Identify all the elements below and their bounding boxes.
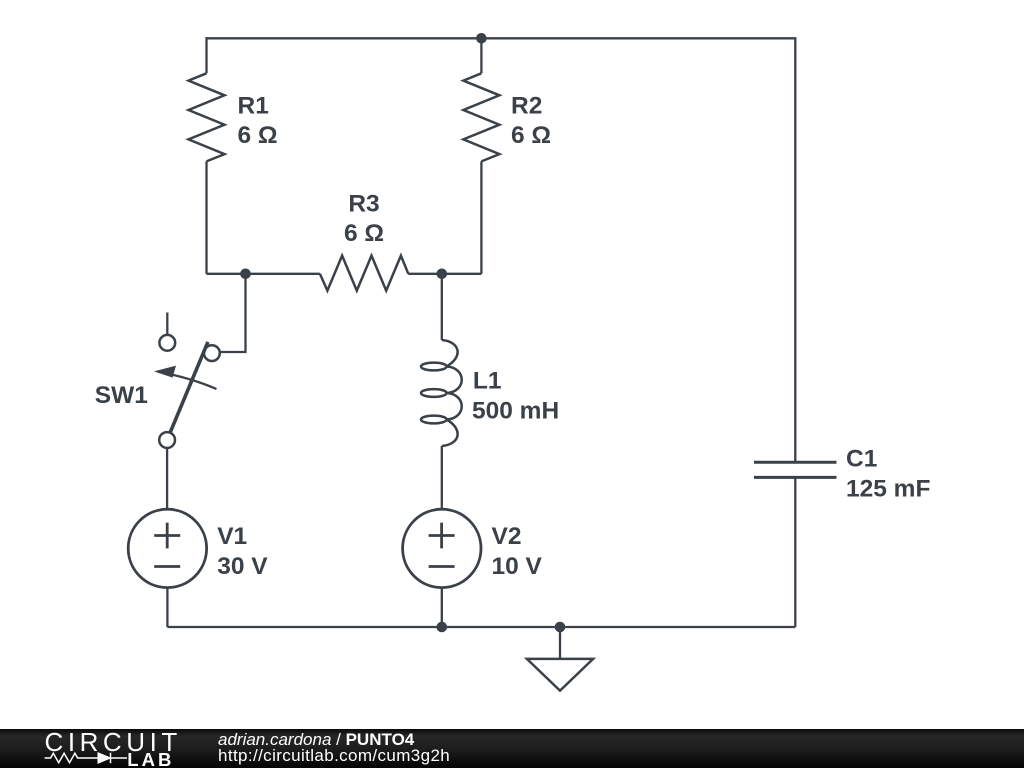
CircuitLab logo CIRCUIT text: [45, 727, 182, 757]
svg-text:125 mF: 125 mF: [846, 475, 930, 502]
resistor R1: [189, 73, 225, 161]
switch SW1 arc: [158, 372, 217, 389]
CircuitLab logo LAB text: [127, 749, 174, 768]
inductor L1 coil: [442, 340, 462, 446]
wire L1 top stub: [441, 274, 443, 340]
svg-text:SW1: SW1: [95, 382, 148, 409]
wire L1 to V2: [441, 446, 443, 509]
wire R1 bottom stub: [205, 161, 207, 273]
wire bottom rail: [167, 626, 795, 628]
svg-text:C1: C1: [846, 445, 877, 472]
wire R2 top stub: [480, 38, 482, 73]
svg-text:R3: R3: [348, 190, 379, 217]
resistor R3: [320, 256, 408, 291]
switch SW1 bottom terminal circle: [159, 432, 175, 448]
switch SW1 pivot circle: [204, 345, 220, 361]
ground symbol triangle: [527, 659, 593, 691]
svg-text:30 V: 30 V: [217, 553, 268, 580]
svg-text:R2: R2: [511, 92, 542, 119]
V2 plus sign: [429, 523, 455, 549]
capacitor C1 bottom plate: [754, 476, 837, 479]
switch SW1 arrowhead: [154, 366, 176, 378]
inductor L1 loop 1: [421, 363, 447, 371]
wire node row right: [408, 273, 481, 275]
wire switch to V1: [166, 448, 168, 509]
switch SW1 open terminal circle: [159, 335, 175, 351]
footer author line: [218, 730, 450, 765]
V1 plus sign: [154, 523, 180, 549]
wire ground stub: [559, 627, 561, 659]
V1 minus sign: [154, 565, 180, 568]
node dot top rail R2 junction: [476, 33, 487, 44]
node dot switch branch junction: [240, 269, 251, 280]
svg-text:http://circuitlab.com/cum3g2h: http://circuitlab.com/cum3g2h: [218, 746, 450, 765]
svg-text:LAB: LAB: [127, 749, 174, 768]
inductor L1 loop 2: [421, 389, 447, 397]
node dot ground junction: [555, 622, 566, 633]
wire V2 bottom: [441, 588, 443, 627]
node dot L1 junction: [437, 269, 448, 280]
capacitor C1 top plate: [754, 461, 837, 464]
V2 minus sign: [429, 565, 455, 568]
resistor R2: [463, 73, 499, 161]
inductor L1 loop 3: [421, 416, 447, 424]
svg-text:V1: V1: [217, 523, 247, 550]
voltage source V2 circle: [403, 509, 481, 587]
svg-text:L1: L1: [473, 367, 502, 394]
wire V1 bottom: [166, 588, 168, 627]
node dot V2 bottom junction: [437, 622, 448, 633]
svg-text:500 mH: 500 mH: [472, 397, 559, 424]
wire open throw stub: [166, 313, 168, 335]
svg-text:6 Ω: 6 Ω: [511, 122, 551, 149]
svg-text:6 Ω: 6 Ω: [238, 122, 278, 149]
wire node row left: [207, 273, 320, 275]
wire R2 bottom stub: [480, 161, 482, 273]
wire switch branch: [220, 274, 246, 352]
voltage source V1 circle: [128, 509, 206, 587]
svg-text:V2: V2: [492, 523, 522, 550]
svg-text:10 V: 10 V: [492, 553, 543, 580]
svg-text:6 Ω: 6 Ω: [344, 220, 384, 247]
svg-text:R1: R1: [238, 92, 269, 119]
wire C1 bottom: [794, 477, 796, 627]
CircuitLab logo resistor-diode squiggle: [45, 753, 127, 763]
switch SW1 lever: [170, 342, 208, 433]
wire top rail and side verticals: [207, 38, 796, 462]
